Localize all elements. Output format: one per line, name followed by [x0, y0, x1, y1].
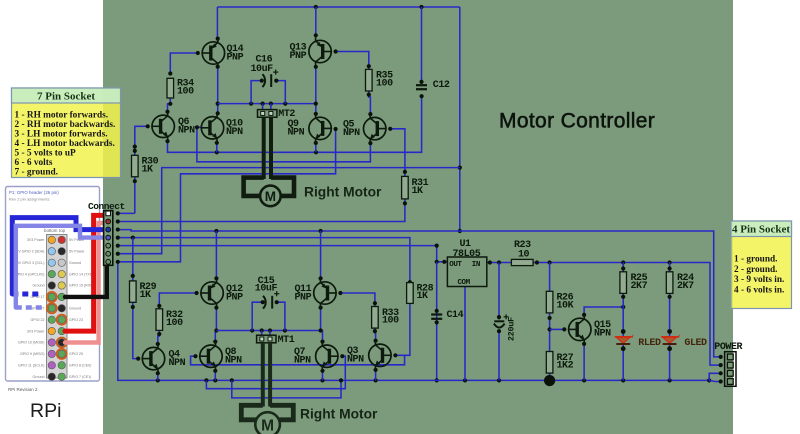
- svg-text:top: top: [59, 228, 66, 233]
- wire MT1 pin2: [269, 331, 271, 336]
- wire R25 to RLED: [621, 293, 626, 336]
- resistor R28 1K: [407, 283, 434, 304]
- pink wire 5V-2: [65, 223, 104, 343]
- svg-text:Right Motor: Right Motor: [304, 185, 382, 200]
- svg-text:4 - 6 volts in.: 4 - 6 volts in.: [734, 286, 784, 296]
- wire pin1 line: [118, 212, 135, 214]
- wire U1 OUT dot: [442, 260, 446, 264]
- resistor R31 1K: [402, 176, 429, 199]
- label Right Motor top: [304, 185, 382, 200]
- wire 6V top rail: [217, 5, 459, 9]
- svg-text:3V3 Power: 3V3 Power: [27, 329, 45, 333]
- label POWER: [714, 342, 742, 353]
- wire Q11 collector down to Q7: [319, 306, 325, 344]
- wire R29 chain: [131, 238, 135, 281]
- svg-text:RV GPIO 2 (SDA): RV GPIO 2 (SDA): [16, 250, 45, 254]
- svg-text:1K: 1K: [412, 186, 424, 197]
- wire pin4 line: [118, 236, 412, 285]
- wire Q15 emitter drop: [582, 342, 586, 381]
- svg-text:7 - ground.: 7 - ground.: [15, 168, 58, 178]
- wire Q13 base to R35: [334, 49, 371, 69]
- junction big dot: [544, 375, 555, 386]
- wire R24 to GLED: [667, 293, 672, 336]
- wire C16 left stub: [251, 79, 264, 104]
- svg-text:GPIO 7 (CE1): GPIO 7 (CE1): [69, 375, 91, 379]
- wire POWER pin4 stub: [709, 380, 721, 381]
- wire pin7 bus to Q9 base: [118, 127, 338, 262]
- wire R26 branch: [549, 263, 551, 292]
- resistor R35 100: [366, 69, 394, 91]
- transistor Q13 PNP: [290, 37, 332, 65]
- blue GPIO wire dashed end: [12, 292, 40, 297]
- svg-text:IN: IN: [472, 261, 480, 269]
- svg-text:1 - RH motor forwards.: 1 - RH motor forwards.: [15, 110, 109, 120]
- wire 220uF branch: [497, 263, 501, 381]
- violet GPIO wire: [16, 226, 104, 308]
- svg-text:4 Pin Socket: 4 Pin Socket: [732, 224, 790, 236]
- note box 7 Pin Socket: [12, 88, 121, 178]
- capacitor C12: [416, 80, 450, 91]
- wire pin3 long rail: [118, 229, 721, 357]
- transistor Q12 PNP: [201, 279, 243, 307]
- title Motor Controller: [499, 110, 655, 133]
- svg-text:100: 100: [177, 86, 194, 97]
- note box 4 Pin Socket: [731, 221, 792, 309]
- transistor Q4 NPN: [142, 344, 185, 372]
- svg-text:5 - 5 volts to uP: 5 - 5 volts to uP: [15, 149, 77, 159]
- svg-text:COM: COM: [458, 279, 471, 287]
- wire R28 bottom to Q3 base: [393, 303, 410, 357]
- svg-text:1 - ground.: 1 - ground.: [734, 255, 777, 265]
- label RPi: [30, 400, 61, 422]
- svg-text:NPN: NPN: [226, 127, 243, 138]
- svg-text:MT1: MT1: [278, 335, 295, 346]
- blue GPIO wire: [12, 218, 103, 294]
- connector Connect 7 pin header: [104, 211, 113, 266]
- schematic green background: [103, 0, 733, 434]
- svg-text:NPN: NPN: [347, 355, 364, 366]
- wire R25 top: [621, 263, 625, 272]
- wire motor midline MT1: [216, 328, 320, 332]
- wire MT2 pin1: [262, 104, 264, 110]
- svg-text:Motor Controller: Motor Controller: [499, 110, 655, 133]
- svg-text:Ground: Ground: [33, 375, 45, 379]
- svg-text:C14: C14: [447, 310, 464, 321]
- svg-text:GPIO 9 (MISO): GPIO 9 (MISO): [20, 352, 45, 356]
- svg-text:RLED: RLED: [638, 338, 661, 349]
- op-amp U1 78L05 regulator: [447, 239, 486, 287]
- wire GLED to ground: [667, 344, 672, 381]
- wire Q11 emitter riser: [319, 231, 323, 281]
- svg-text:RPi: RPi: [30, 400, 61, 422]
- wire Q10 emitter drop: [215, 141, 219, 153]
- svg-text:GPIO 23: GPIO 23: [69, 318, 83, 322]
- svg-text:PNP: PNP: [290, 51, 307, 62]
- wire Q14 base to R34: [168, 51, 200, 76]
- svg-text:10K: 10K: [557, 300, 574, 311]
- LED GLED: [661, 334, 707, 349]
- svg-text:MT2: MT2: [278, 109, 295, 120]
- transistor Q9 NPN: [288, 114, 332, 142]
- wire Q8 base bus: [191, 354, 405, 365]
- resistor R23 10: [511, 240, 533, 266]
- svg-text:1K2: 1K2: [557, 361, 574, 372]
- svg-text:bottom: bottom: [44, 228, 58, 233]
- capacitor C15 10uF: [255, 276, 279, 308]
- wire R26 to R27: [548, 313, 552, 352]
- resistor R30 1K: [132, 155, 159, 177]
- label RPi Revision 2: [8, 387, 38, 392]
- wire Q4 emitter drop: [156, 371, 160, 380]
- capacitor C14: [431, 310, 463, 321]
- resistor R33 100: [372, 307, 400, 329]
- POWER pin dots: [719, 355, 723, 384]
- motor M bottom (Right Motor): [255, 412, 280, 434]
- resistor R24 2K7: [666, 272, 694, 294]
- resistor R34 100: [167, 78, 194, 98]
- wire Q7 emitter drop: [320, 369, 324, 381]
- label Right Motor bottom: [300, 407, 378, 422]
- wire Q6 base to R30 to pin1: [133, 124, 150, 213]
- svg-text:2 - ground.: 2 - ground.: [734, 265, 777, 275]
- wire C15 left stub: [252, 300, 265, 330]
- wire Q14 emitter to rail: [216, 7, 220, 41]
- wire RLED to ground: [621, 344, 626, 381]
- wire R27 to ground big dot: [549, 373, 551, 380]
- svg-text:100: 100: [166, 318, 183, 329]
- svg-text:NPN: NPN: [343, 128, 360, 139]
- wire Q3 emitter drop: [374, 368, 378, 381]
- wire pin6 bus: [118, 168, 460, 254]
- transistor Q5 NPN: [343, 114, 386, 142]
- transistor Q14 PNP: [202, 39, 243, 67]
- svg-text:RPi Revision 2: RPi Revision 2: [8, 387, 38, 392]
- wire R35 bottom to Q5 collector: [367, 91, 373, 116]
- wire R32 bottom to Q4 collector: [156, 330, 162, 346]
- connector MT2: [258, 109, 296, 120]
- svg-text:PNP: PNP: [295, 292, 312, 303]
- svg-text:C12: C12: [433, 80, 450, 91]
- transistor Q7 NPN: [294, 342, 338, 370]
- svg-text:220uF: 220uF: [508, 317, 517, 341]
- wire C16 right stub: [274, 79, 285, 104]
- svg-text:6 - 6 volts: 6 - 6 volts: [15, 158, 53, 168]
- wire lower bus D2: [232, 378, 343, 398]
- wire ground bus bottom: [118, 262, 712, 383]
- connector MT1: [257, 335, 295, 346]
- wire POWER pin3 riser: [709, 373, 721, 380]
- svg-text:M: M: [265, 189, 276, 204]
- svg-text:2 - RH motor backwards.: 2 - RH motor backwards.: [15, 120, 116, 130]
- svg-text:10uF: 10uF: [255, 284, 278, 295]
- svg-text:100: 100: [382, 316, 399, 327]
- svg-text:10uF: 10uF: [251, 64, 274, 75]
- svg-text:3 - LH motor forwards.: 3 - LH motor forwards.: [15, 129, 108, 139]
- svg-text:GPIO 8 (CE0): GPIO 8 (CE0): [69, 364, 91, 368]
- wire MT1 pin1: [261, 331, 263, 336]
- svg-text:2K7: 2K7: [677, 281, 694, 292]
- svg-text:Ground: Ground: [33, 284, 45, 288]
- wire R29 bottom to Q4 base: [131, 302, 141, 360]
- svg-text:OUT: OUT: [449, 261, 462, 269]
- wire Q12 base to R32: [157, 291, 199, 309]
- capacitor 220uF: [494, 314, 517, 341]
- wire Q10 base cross bus: [195, 125, 373, 162]
- svg-text:78L05: 78L05: [453, 249, 481, 260]
- motor bracket top: [244, 178, 294, 196]
- wire R34 bottom to Q6 collector: [165, 98, 172, 114]
- transistor Q15 NPN: [569, 315, 612, 343]
- motor M top (Right Motor): [260, 186, 281, 207]
- svg-text:NPN: NPN: [288, 128, 305, 139]
- svg-text:Connect: Connect: [88, 201, 125, 212]
- svg-text:NPN: NPN: [178, 126, 195, 137]
- resistor R29 1K: [130, 281, 157, 302]
- red wire 5V: [65, 215, 104, 331]
- svg-text:Rev 2 pin assignments: Rev 2 pin assignments: [9, 197, 49, 202]
- svg-text:10: 10: [518, 250, 530, 261]
- motor bracket bottom: [241, 405, 293, 420]
- wire Q11 base to R33: [338, 291, 377, 307]
- svg-text:7 Pin Socket: 7 Pin Socket: [37, 91, 95, 103]
- svg-text:Ground: Ground: [69, 261, 81, 265]
- svg-text:NPN: NPN: [294, 356, 311, 367]
- svg-text:GLED: GLED: [684, 338, 707, 349]
- wire Q12 collector down: [214, 306, 218, 331]
- label Connect: [88, 201, 125, 212]
- svg-text:GPIO 11 (SCLK): GPIO 11 (SCLK): [18, 364, 45, 368]
- svg-text:3V3 Power: 3V3 Power: [27, 238, 45, 242]
- svg-text:PNP: PNP: [227, 52, 244, 63]
- wire motor midline MT2: [218, 102, 316, 106]
- svg-text:GPIO 14 (TXD): GPIO 14 (TXD): [69, 272, 94, 276]
- Connect pin dots: [116, 211, 120, 264]
- svg-text:M: M: [261, 418, 274, 434]
- wire R33 bottom to Q3 collector: [373, 328, 378, 343]
- svg-text:1K: 1K: [140, 290, 152, 301]
- svg-text:GPIO 22: GPIO 22: [31, 318, 45, 322]
- transistor Q8 NPN: [200, 342, 242, 370]
- wire U1 IN line: [487, 260, 721, 365]
- transistor Q6 NPN: [152, 112, 195, 140]
- wire right motor cables bottom: [263, 343, 270, 407]
- svg-text:NPN: NPN: [594, 329, 611, 340]
- resistor R26 10K: [546, 291, 573, 313]
- RPi pinout image: [6, 187, 100, 382]
- wire R24 top: [668, 263, 672, 272]
- svg-text:NPN: NPN: [169, 358, 186, 369]
- resistor R32 100: [156, 309, 183, 331]
- violet GPIO wire dashed end: [16, 305, 43, 309]
- wire C15 right stub: [275, 300, 285, 330]
- transistor Q11 PNP: [295, 279, 337, 307]
- wire Q13 emitter to rail: [314, 7, 318, 37]
- wire U1 COM down: [464, 287, 466, 381]
- wire C12 top: [419, 7, 423, 84]
- svg-text:RV GPIO 3 (SCL): RV GPIO 3 (SCL): [16, 261, 44, 265]
- svg-text:POWER: POWER: [714, 342, 742, 353]
- transistor Q3 NPN: [347, 341, 391, 369]
- wire Q12 emitter riser: [214, 231, 218, 281]
- wire Q5 base to R31: [388, 127, 407, 177]
- svg-text:GPIO 10 (MOSI): GPIO 10 (MOSI): [18, 341, 45, 345]
- wire Q14 collector down: [216, 65, 220, 116]
- black ground wire: [65, 265, 107, 297]
- svg-text:2K7: 2K7: [631, 281, 648, 292]
- svg-text:NPN: NPN: [225, 356, 242, 367]
- wire Q15 base: [550, 327, 567, 331]
- wire C14 branch: [435, 262, 439, 383]
- svg-text:1K: 1K: [417, 291, 429, 302]
- wire Q15 collector to R25: [582, 305, 625, 317]
- LED RLED: [615, 334, 661, 349]
- wire top bridge ground bus: [165, 94, 423, 154]
- svg-text:100: 100: [376, 78, 393, 89]
- svg-text:3 - 9 volts in.: 3 - 9 volts in.: [734, 275, 784, 285]
- svg-text:4 - LH motor backwards.: 4 - LH motor backwards.: [15, 139, 115, 149]
- wire Q9 emitter drop: [314, 141, 318, 153]
- svg-text:Right Motor: Right Motor: [300, 407, 378, 422]
- svg-text:GPIO 15 (RXD): GPIO 15 (RXD): [69, 284, 94, 288]
- wire MT2 pin2: [270, 104, 272, 110]
- wire Q8 emitter drop: [213, 369, 217, 381]
- svg-text:P1: GPIO header (26 pin): P1: GPIO header (26 pin): [9, 190, 59, 195]
- svg-text:Ground: Ground: [69, 307, 81, 311]
- connector POWER 4 pin: [725, 352, 736, 387]
- svg-text:GPIO 4 (GPCLK0): GPIO 4 (GPCLK0): [15, 272, 45, 276]
- transistor Q10 NPN: [201, 114, 243, 142]
- wire Q12-Q8 collector: [213, 328, 218, 343]
- wire pin5 line to U1 OUT: [118, 244, 448, 264]
- resistor R27 1K2: [546, 352, 573, 374]
- wire Q7 base bus: [206, 354, 345, 389]
- capacitor C16 10uF: [251, 55, 279, 88]
- wire R31 bottom to pin2 line: [118, 199, 407, 222]
- svg-text:PNP: PNP: [226, 292, 243, 303]
- svg-text:GPIO 25: GPIO 25: [69, 352, 83, 356]
- wire Q13 collector down to Q9: [314, 65, 318, 116]
- wire 6V right drop: [458, 7, 462, 233]
- resistor R25 2K7: [620, 272, 648, 294]
- wire right motor cables top: [264, 117, 271, 179]
- svg-text:1K: 1K: [142, 164, 154, 175]
- svg-text:5V Power: 5V Power: [69, 250, 85, 254]
